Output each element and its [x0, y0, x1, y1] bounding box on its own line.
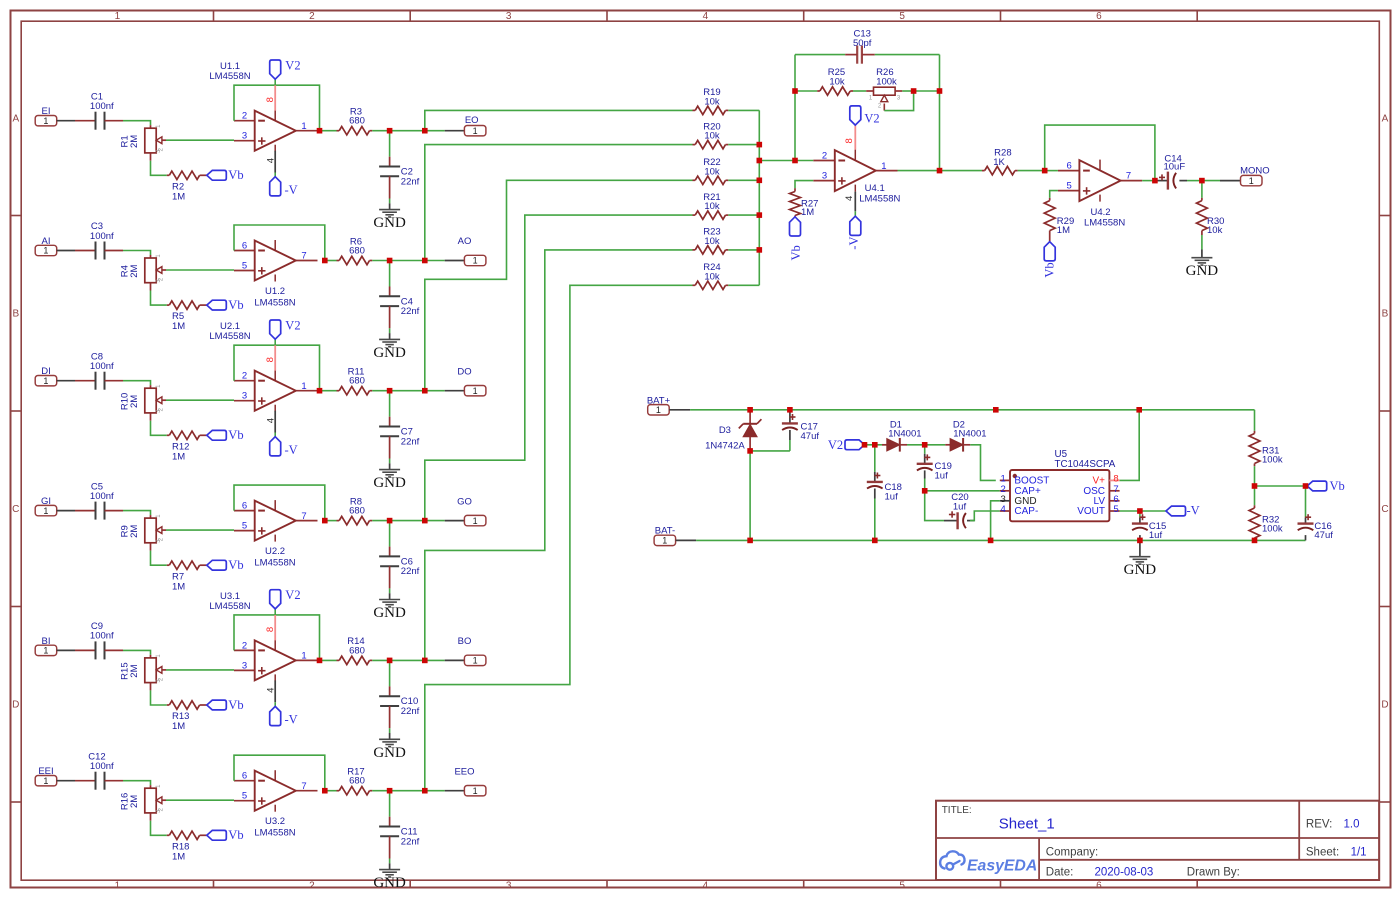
svg-text:1M: 1M: [172, 321, 185, 332]
svg-text:2: 2: [242, 111, 247, 122]
wire D2 to U5 BOOST: [970, 445, 996, 481]
op-amp U3.2 body: [255, 771, 296, 811]
border column tick top 2: [409, 11, 411, 22]
border row tick right 2: [1379, 410, 1390, 412]
wire node to C7: [389, 391, 391, 417]
svg-text:1: 1: [1249, 176, 1254, 186]
wire R10 wiper to op-amp: [166, 399, 234, 401]
wire U4.2 output: [1142, 180, 1155, 182]
svg-text:100k: 100k: [1262, 524, 1283, 535]
wire to R28: [940, 170, 983, 172]
U5 pin 5 VOUT: [1109, 510, 1119, 512]
svg-text:AO: AO: [458, 236, 472, 247]
svg-text:1: 1: [1001, 474, 1006, 485]
svg-text:100nf: 100nf: [90, 231, 114, 242]
border column tick top 6: [1196, 11, 1198, 22]
ground below C10: [389, 733, 391, 739]
wire R9 bottom to R7: [151, 551, 167, 566]
border row tick left 4: [11, 801, 22, 803]
port BI: [35, 645, 57, 655]
svg-text:EasyEDA: EasyEDA: [967, 858, 1037, 875]
wire node to C6: [389, 521, 391, 547]
node R31 R32 Vb junction: [1252, 483, 1258, 489]
title block outer rectangle: [936, 801, 1379, 880]
node D1 D2 C19 junction: [922, 442, 928, 448]
wire node to port DO: [390, 390, 425, 392]
wire R17 to node: [372, 790, 389, 792]
svg-text:22nf: 22nf: [401, 436, 420, 447]
node R26 junction: [911, 88, 917, 94]
svg-text:1M: 1M: [172, 851, 185, 862]
svg-text:1: 1: [473, 386, 478, 396]
svg-text:Vb: Vb: [228, 428, 243, 442]
svg-text:Vb: Vb: [228, 698, 243, 712]
svg-text:TC1044SCPA: TC1044SCPA: [1055, 459, 1116, 470]
wire U2.2 output to R8: [325, 520, 337, 522]
op-amp U1.2 body: [255, 241, 296, 281]
svg-text:EO: EO: [465, 115, 479, 126]
svg-text:6: 6: [242, 771, 247, 782]
node BAT+ U5 pin1 junction: [993, 407, 999, 413]
svg-text:D3: D3: [719, 425, 731, 436]
node U4.1 inverting input junction: [792, 158, 798, 164]
svg-text:8: 8: [265, 97, 276, 102]
svg-text:BO: BO: [458, 636, 472, 647]
svg-text:V2: V2: [285, 58, 300, 72]
node port BO junction: [422, 658, 428, 664]
EasyEDA logo cloud: [940, 851, 964, 869]
svg-text:3: 3: [506, 881, 512, 892]
node U4.1 output junction: [937, 168, 943, 174]
node summing bus junction y=160: [757, 158, 763, 164]
node BAT+ C17 junction: [787, 407, 793, 413]
svg-text:4: 4: [265, 418, 276, 423]
wire DO to mixer resistor: [425, 180, 693, 390]
power pin 8 of U4.1: [854, 125, 856, 150]
svg-text:-V: -V: [285, 713, 298, 727]
wire C3 to R4: [123, 251, 151, 256]
op-amp U1.2 pin 6 lead: [234, 250, 255, 252]
node U4.2 feedback junction: [1042, 168, 1048, 174]
svg-text:1: 1: [301, 651, 306, 662]
wire feedback loop U3.2: [234, 755, 325, 791]
wire R4 wiper to op-amp: [166, 269, 234, 271]
svg-text:B: B: [1382, 309, 1389, 320]
svg-text:Vb: Vb: [789, 245, 803, 260]
wire C7 to ground: [389, 459, 391, 464]
wire summing bus to U4.1 inverting input: [759, 160, 795, 162]
svg-text:D: D: [1381, 699, 1388, 710]
op-amp U3.1 body: [255, 640, 296, 680]
node summing bus junction y=249: [757, 247, 763, 253]
wire C6 to ground: [389, 588, 391, 593]
node BAT+ D3 junction: [747, 407, 753, 413]
net flag Vb at R7: [207, 560, 227, 570]
U5 pin 2 CAP+: [1000, 490, 1010, 492]
svg-text:A: A: [1382, 114, 1389, 125]
net flag Vb below R27: [790, 217, 801, 236]
ground below C4: [389, 333, 391, 339]
svg-text:1M: 1M: [172, 451, 185, 462]
ground below C6: [389, 593, 391, 599]
op-amp U2.2 pin 5 lead: [234, 530, 255, 532]
wire EO to mixer resistor: [425, 110, 693, 130]
svg-text:B: B: [12, 309, 19, 320]
node MONO junction: [1199, 178, 1205, 184]
svg-text:2: 2: [309, 881, 315, 892]
wire BAT- lead: [676, 539, 697, 541]
svg-text:LM4558N: LM4558N: [254, 557, 295, 568]
border column tick bottom 1: [213, 880, 215, 887]
U5 pin 3 GND: [1000, 500, 1010, 502]
port AI: [35, 245, 57, 255]
svg-text:7: 7: [301, 251, 306, 262]
svg-text:100nf: 100nf: [90, 101, 114, 112]
svg-text:1: 1: [301, 121, 306, 132]
node C7 junction: [387, 388, 393, 394]
svg-text:2M: 2M: [129, 135, 140, 148]
node C18 top junction: [872, 442, 878, 448]
wire BAT+ lead: [669, 409, 690, 411]
power pin 4 of U3.1: [274, 680, 276, 702]
svg-text:4: 4: [265, 688, 276, 693]
svg-text:GI: GI: [41, 496, 51, 507]
svg-text:1: 1: [662, 536, 667, 546]
port GI: [35, 505, 57, 515]
op-amp U3.1 output pin 1 lead: [296, 659, 318, 661]
svg-text:2: 2: [309, 11, 315, 22]
border row tick left 2: [11, 410, 22, 412]
wire R15 wiper to op-amp: [166, 669, 234, 671]
wire U4.1 output: [898, 170, 940, 172]
wire R10 bottom to R12: [151, 421, 167, 436]
svg-text:EEI: EEI: [38, 766, 53, 777]
svg-text:Company:: Company:: [1046, 846, 1098, 858]
wire feedback loop U2.2: [234, 485, 325, 520]
svg-text:2M: 2M: [129, 664, 140, 677]
wire C2 to ground: [389, 199, 391, 204]
svg-text:D: D: [12, 699, 19, 710]
node port AO junction: [422, 258, 428, 264]
svg-text:GND: GND: [373, 215, 406, 231]
wire U5 GND pin to BAT- rail: [991, 501, 1000, 541]
svg-text:1: 1: [43, 246, 48, 256]
wire node to port GO: [390, 520, 425, 522]
svg-text:3: 3: [506, 11, 512, 22]
svg-text:GND: GND: [373, 745, 406, 761]
svg-text:REV:: REV:: [1306, 819, 1332, 831]
svg-text:1: 1: [473, 516, 478, 526]
node VOUT C15 junction: [1137, 508, 1143, 514]
node BAT- D3 junction: [747, 538, 753, 544]
wire BI port lead: [57, 649, 75, 651]
ground below C7: [389, 463, 391, 469]
svg-text:MONO: MONO: [1240, 165, 1270, 176]
wire BAT- rail: [696, 539, 1305, 541]
svg-text:2M: 2M: [129, 395, 140, 408]
wire U5 VOUT to -V: [1120, 510, 1140, 512]
svg-text:Drawn By:: Drawn By:: [1187, 867, 1240, 879]
wire node to port EO: [390, 130, 425, 132]
op-amp U1.2 output pin 7 lead: [296, 260, 318, 262]
wire U4.2 non-inverting input to R29: [1045, 170, 1058, 172]
svg-text:Date:: Date:: [1046, 867, 1074, 879]
svg-text:100nf: 100nf: [90, 491, 114, 502]
svg-text:DI: DI: [41, 366, 51, 377]
node C10 junction: [387, 658, 393, 664]
svg-text:Vb: Vb: [1330, 479, 1345, 493]
net flag V2 at U4.1: [850, 106, 861, 125]
svg-text:8: 8: [265, 627, 276, 632]
wire feedback loop U1.2: [234, 225, 325, 261]
svg-text:Vb: Vb: [1042, 262, 1056, 277]
wire summing bus vertical: [758, 110, 760, 285]
wire C19 node down to C20: [925, 491, 944, 521]
wire V2 to D1: [865, 444, 875, 446]
wire C11 to ground: [389, 859, 391, 864]
svg-text:100nf: 100nf: [90, 361, 114, 372]
wire D1 to D2 node: [907, 444, 925, 446]
svg-text:7: 7: [301, 511, 306, 522]
border row tick right 3: [1379, 606, 1390, 608]
wire R15 bottom to R13: [151, 690, 167, 705]
svg-text:A: A: [12, 114, 19, 125]
svg-text:V2: V2: [864, 111, 879, 125]
svg-text:EI: EI: [42, 106, 51, 117]
op-amp U1.2 pin 5 lead: [234, 270, 255, 272]
node C16 top junction: [1303, 483, 1309, 489]
node BAT- R32 junction: [1252, 538, 1258, 544]
svg-text:100nf: 100nf: [90, 631, 114, 642]
wire U1.1 output to R3: [320, 130, 337, 132]
net flag -V at U4.1: [854, 211, 856, 216]
svg-text:2M: 2M: [129, 795, 140, 808]
power pin 4 of U1.1: [274, 151, 276, 173]
net flag Vb at R2: [207, 170, 227, 180]
node BAT- U5 pin3 junction: [988, 538, 994, 544]
net flag Vb at R18: [207, 830, 227, 840]
wire D3 to C17: [750, 450, 790, 452]
svg-text:5: 5: [899, 11, 905, 22]
svg-text:GND: GND: [373, 475, 406, 491]
svg-text:22nf: 22nf: [401, 306, 420, 317]
op-amp U2.1 body: [255, 371, 296, 411]
op-amp U1.1 pin 3 lead: [234, 140, 255, 142]
svg-text:1: 1: [473, 786, 478, 796]
net flag -V at U2.1: [274, 433, 276, 437]
svg-text:V2: V2: [285, 588, 300, 602]
svg-text:4: 4: [1001, 504, 1006, 515]
node feedback left R25 junction: [792, 88, 798, 94]
node D3 bottom junction: [747, 448, 753, 454]
wire U4.1 feedback left vertical: [794, 55, 796, 161]
wire C8 to R10: [123, 381, 151, 386]
power pin 4 of U2.1: [274, 411, 276, 433]
svg-text:Vb: Vb: [228, 828, 243, 842]
node C4 junction: [387, 258, 393, 264]
net flag V2 at U3.1: [274, 609, 276, 615]
wire BAT+ rail: [690, 409, 1254, 411]
ground below R30: [1201, 250, 1203, 258]
wire feedback loop U2.1: [234, 345, 320, 391]
svg-text:1: 1: [43, 646, 48, 656]
node summing bus junction y=144: [757, 142, 763, 148]
svg-text:2: 2: [242, 371, 247, 382]
node BAT- C15 junction: [1137, 538, 1143, 544]
net flag Vb at R5: [207, 300, 227, 310]
net flag Vb at R13: [207, 700, 227, 710]
svg-text:4: 4: [265, 158, 276, 163]
wire node to C11: [389, 791, 391, 817]
wire node to port EEO: [390, 790, 425, 792]
wire R16 wiper to op-amp: [166, 799, 234, 801]
svg-text:GND: GND: [373, 345, 406, 361]
wire C5 to R9: [123, 511, 151, 515]
svg-text:LM4558N: LM4558N: [209, 71, 250, 82]
border row tick right 4: [1379, 801, 1390, 803]
svg-text:22nf: 22nf: [401, 176, 420, 187]
border row tick left 1: [11, 215, 22, 217]
svg-text:100k: 100k: [876, 76, 897, 87]
svg-text:22nf: 22nf: [401, 836, 420, 847]
wire R26 wiper tie: [883, 104, 885, 111]
wire R23 to summing bus: [728, 249, 759, 251]
wire MONO node to port: [1202, 180, 1220, 182]
svg-text:1: 1: [43, 116, 48, 126]
wire node to C10: [389, 660, 391, 686]
wire C12 to R16: [123, 781, 151, 786]
node BAT- C18 junction: [872, 538, 878, 544]
wire R11 to node: [372, 390, 389, 392]
wire R30 to ground: [1201, 235, 1203, 250]
svg-text:C: C: [12, 504, 19, 515]
svg-text:1: 1: [473, 126, 478, 136]
border column tick bottom 4: [803, 880, 805, 887]
wire R14 to node: [372, 659, 389, 661]
svg-text:1M: 1M: [172, 581, 185, 592]
svg-text:VOUT: VOUT: [1077, 506, 1105, 517]
wire U4.1 input wires: [795, 160, 813, 162]
net flag Vb at R12: [207, 430, 227, 440]
svg-text:3: 3: [822, 171, 827, 182]
wire AO to mixer resistor: [425, 145, 693, 261]
wire C4 to ground: [389, 328, 391, 333]
node port EO junction: [422, 128, 428, 134]
svg-text:LM4558N: LM4558N: [254, 828, 295, 839]
svg-text:U4.2: U4.2: [1090, 207, 1110, 218]
net flag -V at VOUT: [1166, 506, 1186, 516]
svg-text:1: 1: [881, 161, 886, 172]
wire node to C2: [389, 131, 391, 157]
svg-text:47uf: 47uf: [1314, 530, 1333, 541]
svg-text:V2: V2: [285, 318, 300, 332]
wire D2 input: [925, 444, 946, 446]
svg-text:5: 5: [1067, 181, 1072, 192]
svg-text:TITLE:: TITLE:: [942, 805, 972, 816]
svg-text:1: 1: [43, 776, 48, 786]
wire DI port lead: [57, 380, 75, 382]
svg-text:10uF: 10uF: [1163, 161, 1185, 172]
svg-text:C: C: [1381, 504, 1388, 515]
svg-text:1M: 1M: [172, 191, 185, 202]
wire C14 to MONO node: [1187, 180, 1202, 182]
wire node to port BO: [390, 659, 425, 661]
svg-text:1uf: 1uf: [935, 470, 949, 481]
svg-text:-V: -V: [285, 443, 298, 457]
op-amp U2.2 output pin 7 lead: [296, 520, 318, 522]
svg-text:4: 4: [703, 881, 709, 892]
node C2 junction: [387, 128, 393, 134]
svg-text:100nf: 100nf: [90, 761, 114, 772]
svg-text:1M: 1M: [801, 207, 814, 218]
wire D3 to BAT- rail: [749, 451, 751, 541]
wire R1 wiper to op-amp: [166, 139, 234, 141]
svg-text:5: 5: [242, 791, 247, 802]
power pin 8 of U3.1: [274, 615, 276, 641]
ground below C15: [1139, 543, 1141, 557]
title block divider lines: [936, 837, 1379, 839]
wire GO to mixer resistor: [425, 215, 693, 520]
op-amp U2.1 pin 3 lead: [234, 400, 255, 402]
net flag V2 power source: [845, 440, 865, 450]
svg-text:Vb: Vb: [228, 298, 243, 312]
wire EEI port lead: [57, 780, 75, 782]
node summing bus junction y=215: [757, 212, 763, 218]
node port GO junction: [422, 518, 428, 524]
power pin 4 of U4.1: [854, 192, 856, 212]
border column tick bottom 2: [409, 880, 411, 887]
svg-text:1uf: 1uf: [953, 501, 967, 512]
svg-text:1: 1: [115, 11, 121, 22]
wire C9 to R15: [123, 650, 151, 655]
svg-text:8: 8: [844, 138, 855, 143]
svg-text:4: 4: [844, 196, 855, 201]
op-amp U2.1 output pin 1 lead: [296, 390, 318, 392]
svg-text:GO: GO: [457, 496, 472, 507]
svg-text:-V: -V: [1187, 504, 1200, 518]
svg-text:3: 3: [242, 391, 247, 402]
wire C13 to output node: [875, 54, 940, 56]
op-amp U1.1 body: [255, 111, 296, 151]
ground below C2: [389, 203, 391, 209]
svg-text:1: 1: [301, 381, 306, 392]
svg-text:LM4558N: LM4558N: [1084, 217, 1125, 228]
svg-text:LM4558N: LM4558N: [209, 601, 250, 612]
svg-text:2M: 2M: [129, 525, 140, 538]
wire U3.2 output to R17: [325, 790, 337, 792]
svg-text:1uf: 1uf: [885, 491, 899, 502]
svg-text:GND: GND: [373, 875, 406, 891]
node feedback right junction: [937, 88, 943, 94]
svg-text:680: 680: [349, 376, 365, 387]
wire R16 bottom to R18: [151, 821, 167, 836]
wire R22 to summing bus: [728, 179, 759, 181]
wire R3 to node: [372, 130, 389, 132]
svg-text:LM4558N: LM4558N: [209, 331, 250, 342]
wire AI port lead: [57, 250, 75, 252]
svg-text:1M: 1M: [172, 721, 185, 732]
wire U4.2 feedback loop: [1045, 125, 1155, 181]
wire node to port AO: [390, 260, 425, 262]
wire U2.1 output to R11: [320, 390, 337, 392]
net flag Vb below R29: [1044, 242, 1055, 261]
wire R6 to node: [372, 260, 389, 262]
svg-text:7: 7: [1126, 171, 1131, 182]
svg-text:6: 6: [1096, 11, 1102, 22]
wire R9 wiper to op-amp: [166, 529, 234, 531]
U5 pin 6 LV: [1109, 500, 1119, 502]
U5 pin 7 OSC: [1109, 490, 1119, 492]
